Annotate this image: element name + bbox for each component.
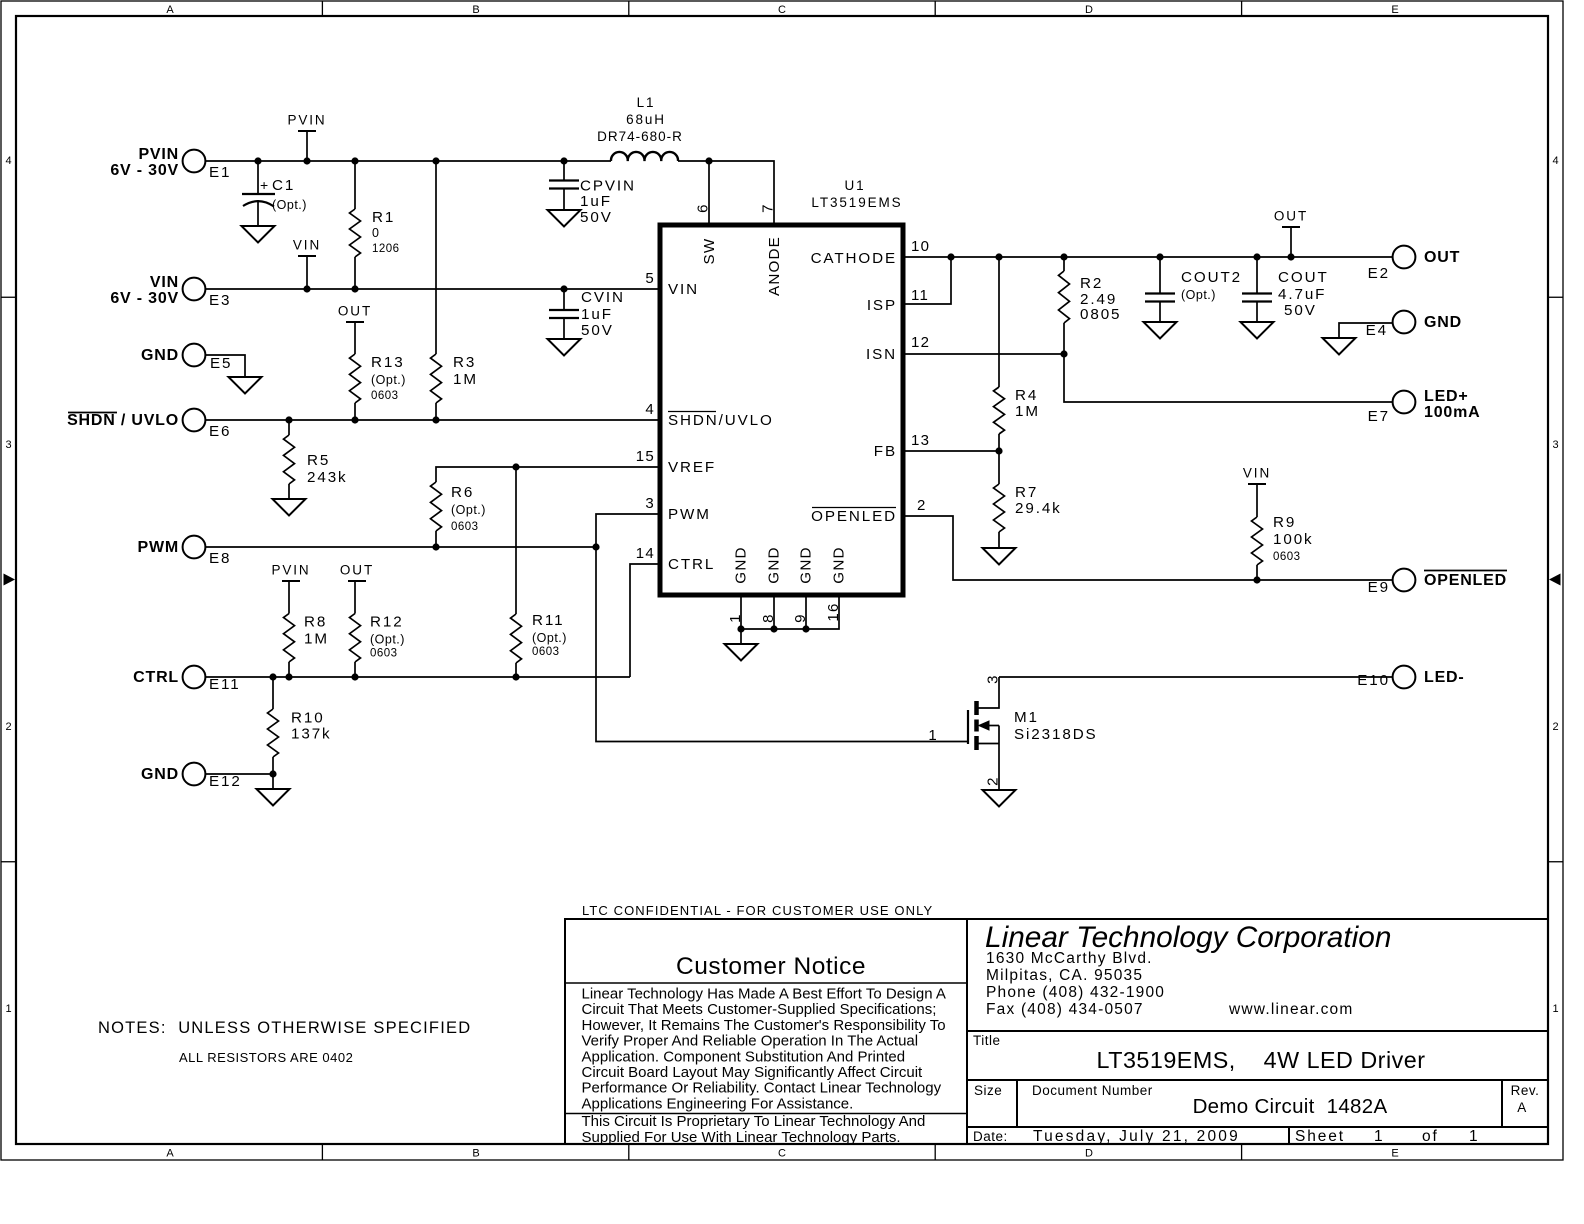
node GND bus 8 [770, 625, 777, 632]
svg-text:16: 16 [825, 602, 842, 621]
svg-text:0603: 0603 [1273, 551, 1301, 563]
svg-text:0805: 0805 [1080, 306, 1121, 323]
svg-text:U1: U1 [844, 178, 865, 193]
resistor R9 [1252, 517, 1263, 565]
wire GND pin9 stub [805, 595, 807, 629]
svg-text:Verify Proper And Reliable Ope: Verify Proper And Reliable Operation In … [582, 1033, 919, 1050]
svg-text:VIN: VIN [150, 274, 179, 291]
node ISP junction [947, 253, 954, 260]
wire GND pin16 stub [741, 595, 839, 629]
wire node to ANODE [709, 161, 774, 225]
node PWM junction [592, 543, 599, 550]
svg-text:PVIN: PVIN [138, 146, 179, 163]
svg-text:(Opt.): (Opt.) [451, 503, 486, 517]
inductor L1 [611, 152, 678, 161]
port E7 LED+ [1393, 391, 1416, 414]
svg-text:C: C [778, 4, 786, 16]
ground U1 GND [725, 644, 758, 661]
svg-text:8: 8 [760, 613, 777, 623]
svg-text:(Opt.): (Opt.) [1181, 288, 1216, 302]
svg-text:100k: 100k [1273, 531, 1314, 548]
svg-text:OUT: OUT [340, 563, 374, 578]
wire PVIN rail E1 to L1 [205, 160, 611, 162]
ground CPVIN [548, 210, 581, 227]
svg-text:Fax (408) 434-0507: Fax (408) 434-0507 [986, 1001, 1144, 1018]
wire E4 to ground [1339, 323, 1393, 338]
svg-text:ANODE: ANODE [766, 236, 783, 296]
svg-text:1: 1 [727, 613, 744, 623]
svg-text:Customer Notice: Customer Notice [676, 953, 866, 980]
wire FB rail [903, 450, 999, 452]
svg-text:E4: E4 [1366, 322, 1388, 339]
port E10 LED- [1393, 666, 1416, 689]
svg-text:9: 9 [792, 613, 809, 623]
svg-text:1uF: 1uF [581, 306, 613, 323]
svg-text:M1: M1 [1014, 709, 1039, 726]
svg-text:Application. Component Substit: Application. Component Substitution And … [582, 1048, 906, 1065]
svg-text:R1: R1 [372, 209, 395, 226]
svg-text:R3: R3 [453, 354, 476, 371]
svg-text:CATHODE: CATHODE [811, 250, 897, 267]
wire OPENLED pin2 jog [903, 516, 1393, 580]
svg-text:PVIN: PVIN [287, 113, 326, 128]
wire C1 top lead [257, 161, 259, 194]
wire CATHODE rail [903, 256, 1393, 258]
wire PWM to M1 gate [596, 547, 968, 742]
wire COUT2 lead [1159, 257, 1161, 294]
svg-text:2: 2 [5, 721, 11, 733]
svg-text:ISN: ISN [866, 346, 897, 363]
svg-text:1: 1 [1374, 1128, 1385, 1145]
svg-text:OUT: OUT [1424, 249, 1460, 266]
svg-text:5: 5 [645, 270, 655, 287]
svg-text:VREF: VREF [668, 459, 716, 476]
wire L1 to SW node [678, 160, 709, 162]
svg-text:NOTES: UNLESS OTHERWISE SPECI: NOTES: UNLESS OTHERWISE SPECIFIED [98, 1019, 471, 1037]
node R3 bottom [432, 416, 439, 423]
svg-text:LTC CONFIDENTIAL - FOR CUSTOME: LTC CONFIDENTIAL - FOR CUSTOMER USE ONLY [582, 903, 933, 918]
node GND bus 1 [737, 625, 744, 632]
svg-text:ALL RESISTORS ARE 0402: ALL RESISTORS ARE 0402 [179, 1050, 353, 1065]
svg-text:SHDN / UVLO: SHDN / UVLO [67, 412, 179, 429]
svg-text:3: 3 [1552, 439, 1558, 451]
wire GND bus to ground [740, 629, 742, 644]
svg-text:(Opt.): (Opt.) [371, 373, 406, 387]
svg-text:Title: Title [973, 1033, 1001, 1048]
svg-text:100mA: 100mA [1424, 404, 1480, 421]
svg-text:6V - 30V: 6V - 30V [110, 162, 179, 179]
svg-text:E10: E10 [1357, 672, 1390, 689]
svg-text:E: E [1391, 4, 1398, 16]
svg-text:(Opt.): (Opt.) [272, 198, 307, 212]
svg-text:CPVIN: CPVIN [580, 178, 636, 195]
transistor M1 body arrow [988, 725, 999, 727]
svg-text:3: 3 [5, 439, 11, 451]
svg-text:of: of [1422, 1128, 1439, 1145]
svg-text:(Opt.): (Opt.) [370, 633, 405, 647]
svg-text:VIN: VIN [293, 238, 321, 253]
node OUT flag tap [1287, 253, 1294, 260]
node CPVIN tap [560, 157, 567, 164]
node R2 top [1060, 253, 1067, 260]
resistor R13 [350, 354, 361, 403]
svg-text:B: B [472, 1148, 479, 1160]
node R11 bottom [512, 673, 519, 680]
wire ISP pin11 jog [903, 257, 951, 304]
wire CVIN lead [563, 289, 565, 310]
svg-text:4: 4 [5, 155, 11, 167]
wire VIN rail E3 to pin5 [205, 288, 660, 290]
port E5 GND [183, 344, 206, 367]
svg-text:Document Number: Document Number [1032, 1083, 1153, 1098]
svg-text:1206: 1206 [372, 243, 400, 255]
svg-text:3: 3 [645, 495, 655, 512]
svg-text:R5: R5 [307, 452, 330, 469]
node R11 top tap [512, 463, 519, 470]
ground C1 [242, 226, 275, 243]
svg-text:11: 11 [911, 287, 929, 304]
svg-text:This Circuit Is Proprietary To: This Circuit Is Proprietary To Linear Te… [582, 1113, 926, 1130]
svg-text:VIN: VIN [668, 281, 699, 298]
svg-text:ISP: ISP [867, 297, 897, 314]
node FB junction [995, 447, 1002, 454]
port E11 CTRL [183, 666, 206, 689]
svg-text:1uF: 1uF [580, 193, 612, 210]
svg-text:Date:: Date: [973, 1129, 1008, 1144]
title block frame [967, 918, 1548, 920]
capacitor C1 plates [242, 193, 275, 195]
svg-text:CTRL: CTRL [668, 556, 715, 573]
svg-text:R7: R7 [1015, 484, 1038, 501]
svg-text:E12: E12 [209, 773, 242, 790]
node C1 tap [254, 157, 261, 164]
svg-text:E5: E5 [210, 355, 232, 372]
svg-text:C1: C1 [272, 177, 295, 194]
svg-text:0603: 0603 [370, 648, 398, 660]
svg-text:Supplied For Use With Linear T: Supplied For Use With Linear Technology … [582, 1129, 901, 1146]
port E1 PVIN [183, 150, 206, 173]
wire CTRL pin14 jog [630, 564, 660, 677]
node R13 bottom [351, 416, 358, 423]
wire R11 vertical [515, 467, 517, 614]
ground R5 [273, 499, 306, 516]
node COUT2 tap [1156, 253, 1163, 260]
wire E12 to R10 [205, 773, 273, 775]
svg-text:OUT: OUT [1274, 209, 1308, 224]
wire GND pin8 stub [773, 595, 775, 629]
node COUT tap [1253, 253, 1260, 260]
border zone tick lines [321, 1, 323, 16]
svg-text:PVIN: PVIN [271, 563, 310, 578]
port E6 SHDN/UVLO [183, 409, 206, 432]
svg-text:COUT2: COUT2 [1181, 269, 1242, 286]
resistor R3 [435, 161, 437, 354]
svg-text:1M: 1M [304, 631, 329, 648]
border left arrow marker [4, 574, 16, 586]
node PVIN flag tap [303, 157, 310, 164]
svg-text:243k: 243k [307, 469, 348, 486]
node R6 bottom [432, 543, 439, 550]
svg-text:R8: R8 [304, 614, 327, 631]
svg-text:68uH: 68uH [626, 112, 666, 127]
svg-text:29.4k: 29.4k [1015, 500, 1062, 517]
wire COUT lead [1256, 257, 1258, 294]
ground R10 [257, 789, 290, 806]
wire M1 source to ground [998, 726, 1000, 791]
wire ISN rail [903, 353, 1064, 355]
svg-text:CVIN: CVIN [581, 289, 625, 306]
svg-text:E8: E8 [209, 550, 231, 567]
svg-text:E2: E2 [1368, 265, 1390, 282]
wire E5 to ground [205, 355, 245, 377]
svg-text:4: 4 [1552, 155, 1558, 167]
node R8 bottom [285, 673, 292, 680]
svg-text:E1: E1 [209, 164, 231, 181]
svg-text:4.7uF: 4.7uF [1278, 286, 1326, 303]
svg-text:D: D [1085, 1148, 1093, 1160]
svg-text:0: 0 [372, 226, 379, 240]
svg-text:1: 1 [928, 727, 938, 744]
transistor M1 gate bar [967, 710, 969, 744]
svg-text:E6: E6 [209, 423, 231, 440]
customer notice box [565, 919, 967, 1144]
svg-text:LT3519EMS, 4W LED Driver: LT3519EMS, 4W LED Driver [1097, 1047, 1426, 1073]
node R1 top tap [351, 157, 358, 164]
port E12 GND [183, 763, 206, 786]
svg-text:0603: 0603 [371, 390, 399, 402]
svg-text:Applications Engineering For A: Applications Engineering For Assistance. [582, 1095, 854, 1112]
resistor R11 [511, 614, 522, 663]
svg-text:OPENLED: OPENLED [1424, 572, 1507, 589]
svg-text:PWM: PWM [137, 539, 179, 556]
svg-text:COUT: COUT [1278, 269, 1329, 286]
svg-text:1M: 1M [1015, 403, 1040, 420]
svg-text:A: A [166, 1148, 174, 1160]
ground E4 [1323, 338, 1356, 355]
svg-text:DR74-680-R: DR74-680-R [597, 129, 683, 144]
svg-text:1630 McCarthy Blvd.: 1630 McCarthy Blvd. [986, 950, 1153, 967]
svg-text:GND: GND [831, 546, 848, 583]
wire PWM pin3 jog [596, 514, 660, 547]
svg-text:SHDN/UVLO: SHDN/UVLO [668, 412, 774, 429]
svg-text:E7: E7 [1368, 408, 1390, 425]
svg-text:Sheet: Sheet [1295, 1128, 1345, 1145]
capacitor CVIN [549, 309, 579, 311]
svg-text:E: E [1391, 1148, 1398, 1160]
wire M1 drain to E10 [999, 676, 1393, 678]
svg-text:0603: 0603 [451, 521, 479, 533]
svg-text:R9: R9 [1273, 514, 1296, 531]
resistor R2 [1063, 257, 1065, 271]
svg-text:4: 4 [645, 401, 655, 418]
capacitor COUT2 [1145, 292, 1175, 294]
svg-text:GND: GND [1424, 314, 1462, 331]
node R10 top [269, 673, 276, 680]
svg-text:D: D [1085, 4, 1093, 16]
node R1 bottom [351, 285, 358, 292]
node R10 ground junction [269, 770, 276, 777]
transistor M1 source lead [977, 743, 1000, 745]
svg-text:E9: E9 [1368, 579, 1390, 596]
svg-text:Circuit That Meets Customer-Su: Circuit That Meets Customer-Supplied Spe… [582, 1001, 937, 1018]
svg-text:Tuesday, July 21, 2009: Tuesday, July 21, 2009 [1033, 1128, 1240, 1145]
svg-text:LED+: LED+ [1424, 388, 1469, 405]
ground COUT [1241, 322, 1274, 339]
ground E5 [229, 377, 262, 394]
svg-text:GND: GND [141, 347, 179, 364]
wire VREF pin15 to R6 [436, 467, 660, 482]
svg-text:12: 12 [911, 334, 930, 351]
node R3 top tap [432, 157, 439, 164]
capacitor COUT [1242, 292, 1272, 294]
svg-text:Si2318DS: Si2318DS [1014, 726, 1098, 743]
ground R7 [983, 548, 1016, 565]
resistor R4 [998, 257, 1000, 387]
svg-text:R6: R6 [451, 484, 474, 501]
transistor M1 drain lead [977, 677, 1000, 708]
svg-text:10: 10 [911, 238, 930, 255]
svg-text:+: + [260, 177, 268, 193]
wire CTRL rail E11 [205, 676, 630, 678]
wire C1 bottom lead [257, 200, 259, 226]
transistor M1 channel bars [974, 701, 979, 715]
svg-text:Linear Technology Has Made A B: Linear Technology Has Made A Best Effort… [582, 986, 946, 1003]
svg-text:Performance Or Reliability. Co: Performance Or Reliability. Contact Line… [582, 1080, 942, 1097]
svg-text:1: 1 [1469, 1128, 1480, 1145]
svg-text:GND: GND [141, 766, 179, 783]
svg-text:Circuit Board Layout May Signi: Circuit Board Layout May Significantly A… [582, 1064, 924, 1081]
svg-text:1: 1 [1552, 1003, 1558, 1015]
svg-text:L1: L1 [637, 95, 656, 110]
resistor R8 [284, 614, 295, 663]
capacitor CPVIN [549, 179, 579, 181]
svg-text:50V: 50V [580, 209, 613, 226]
op-amp U1 LT3519EMS box [660, 225, 903, 595]
resistor R12 [350, 614, 361, 663]
svg-text:50V: 50V [1284, 302, 1317, 319]
wire GND pin1 stub [740, 595, 742, 629]
svg-text:13: 13 [911, 432, 930, 449]
resistor R7 [998, 451, 1000, 484]
svg-text:GND: GND [766, 546, 783, 583]
svg-text:137k: 137k [291, 726, 332, 743]
svg-text:LT3519EMS: LT3519EMS [811, 195, 902, 210]
svg-text:2: 2 [985, 776, 1002, 786]
node GND bus 9 [802, 625, 809, 632]
svg-text:SW: SW [701, 238, 718, 265]
svg-text:R4: R4 [1015, 387, 1038, 404]
ground CVIN [548, 339, 581, 356]
svg-text:www.linear.com: www.linear.com [1228, 1001, 1353, 1018]
port E8 PWM [183, 536, 206, 559]
svg-text:R10: R10 [291, 710, 325, 727]
svg-text:FB: FB [874, 443, 897, 460]
node VIN flag tap [303, 285, 310, 292]
wire ISN to E7 [1064, 354, 1393, 402]
svg-text:R13: R13 [371, 354, 405, 371]
svg-text:PWM: PWM [668, 506, 711, 523]
svg-text:A: A [166, 4, 174, 16]
node R9 bottom [1253, 576, 1260, 583]
svg-text:50V: 50V [581, 322, 614, 339]
svg-text:Phone (408) 432-1900: Phone (408) 432-1900 [986, 984, 1165, 1001]
node R12 bottom [351, 673, 358, 680]
svg-text:2: 2 [917, 497, 927, 514]
node SW [705, 157, 712, 164]
svg-text:CTRL: CTRL [133, 669, 179, 686]
border right arrow marker [1549, 574, 1561, 586]
wire PWM rail E8 [205, 546, 596, 548]
svg-text:B: B [472, 4, 479, 16]
svg-text:14: 14 [636, 545, 655, 562]
node R4 top [995, 253, 1002, 260]
svg-text:1M: 1M [453, 371, 478, 388]
port E3 VIN [183, 278, 206, 301]
svg-text:2: 2 [1552, 721, 1558, 733]
svg-text:GND: GND [798, 546, 815, 583]
svg-text:6V - 30V: 6V - 30V [110, 290, 179, 307]
resistor R6 [431, 482, 442, 531]
svg-text:Milpitas, CA. 95035: Milpitas, CA. 95035 [986, 967, 1143, 984]
svg-text:C: C [778, 1148, 786, 1160]
resistor R10 [272, 677, 274, 709]
wire SW stub [708, 161, 710, 225]
svg-text:E11: E11 [209, 676, 241, 693]
resistor R5 [288, 420, 290, 435]
svg-text:R12: R12 [370, 614, 404, 631]
svg-text:15: 15 [636, 448, 655, 465]
svg-text:LED-: LED- [1424, 669, 1465, 686]
svg-text:Size: Size [974, 1083, 1002, 1098]
svg-text:However, It Remains The Custom: However, It Remains The Customer's Respo… [582, 1017, 946, 1034]
svg-text:0603: 0603 [532, 646, 560, 658]
svg-text:OUT: OUT [338, 304, 372, 319]
svg-text:6: 6 [695, 203, 712, 213]
svg-text:1: 1 [5, 1003, 11, 1015]
svg-text:A: A [1517, 1100, 1527, 1115]
svg-text:(Opt.): (Opt.) [532, 631, 567, 645]
port E2 OUT [1393, 246, 1416, 269]
port E9 OPENLED [1393, 569, 1416, 592]
svg-text:3: 3 [985, 674, 1002, 684]
node R5 tap [285, 416, 292, 423]
ground COUT2 [1144, 322, 1177, 339]
port E4 GND [1393, 311, 1416, 334]
node ISN junction [1060, 350, 1067, 357]
wire SHDN rail E6 to pin4 [205, 419, 660, 421]
wire CPVIN lead [563, 161, 565, 181]
svg-text:Demo Circuit 1482A: Demo Circuit 1482A [1193, 1095, 1388, 1118]
node CVIN tap [560, 285, 567, 292]
svg-text:GND: GND [733, 546, 750, 583]
resistor R1 [354, 161, 356, 209]
svg-text:7: 7 [760, 203, 777, 213]
svg-text:R2: R2 [1080, 275, 1103, 292]
svg-text:VIN: VIN [1243, 466, 1271, 481]
ground M1 [983, 790, 1016, 807]
svg-text:R11: R11 [532, 612, 564, 629]
svg-text:E3: E3 [209, 292, 231, 309]
svg-text:OPENLED: OPENLED [811, 508, 897, 525]
svg-text:Rev.: Rev. [1511, 1083, 1540, 1098]
